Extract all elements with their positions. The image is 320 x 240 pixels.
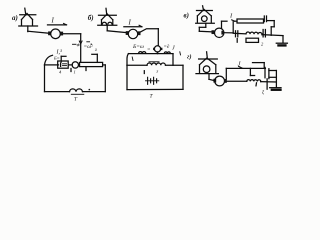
inductor arcs (g) (247, 80, 261, 82)
wire a3 corner down (80, 34, 82, 63)
arrowhead down on a3 (79, 41, 82, 44)
thermoelement TE1 top bar (20, 14, 36, 16)
meter m2 (B2) (154, 46, 160, 52)
svg-text:в): в) (184, 12, 189, 20)
thermoelement TE1 base bar (19, 25, 38, 27)
cap plates (g) (264, 67, 266, 77)
wire b3 corner down (157, 29, 159, 46)
thermoelement TE1 left side (21, 20, 23, 26)
thermoelement TE3 base bar (196, 22, 215, 24)
TE2 omega bumps (102, 22, 106, 25)
tick 1 (A2) (70, 69, 72, 72)
outer loop B2 bottom (127, 88, 183, 90)
galvanometer G3 left nub (212, 30, 215, 34)
top rail (g) (226, 67, 265, 69)
wire b2 (140, 29, 158, 32)
svg-text:ξ: ξ (262, 90, 265, 96)
thermoelement TE2 left side (101, 20, 103, 25)
thermoelement TE4 stick (206, 52, 209, 59)
top rail (v) (222, 20, 228, 22)
tick under box (A2) (85, 68, 87, 71)
rail drop (g) (225, 68, 227, 79)
rail drop left (v) (221, 21, 223, 28)
wire a1 (28, 31, 49, 33)
outer loop B2 left (126, 65, 128, 89)
thermoelement TE2 base bar (98, 24, 117, 26)
inner right vertical (A2) (92, 53, 98, 55)
inductor arcs (B2) (147, 63, 165, 65)
step down (v) (273, 21, 275, 27)
rail bumps left (B2) (139, 52, 143, 54)
current arrow I (a) (48, 24, 67, 26)
svg-text:I: I (51, 17, 55, 25)
TE4 inner circle (203, 66, 210, 73)
dot on wire (A2) (89, 89, 91, 91)
bracket wire A2 (60, 56, 62, 62)
rail A2 (45, 64, 59, 66)
thermoelement TE3 stick (202, 6, 205, 11)
lower plate stub (g) (266, 79, 268, 89)
rail right segment (v) (267, 20, 274, 22)
galvanometer G2 left nub (126, 31, 129, 35)
thermoelement TE2 stick (105, 8, 108, 15)
resistor box R1 (v) (237, 19, 264, 23)
outer loop A2 left (44, 65, 46, 92)
thermoelement TE3 left side (196, 16, 198, 22)
cap in rail (v) (263, 16, 265, 22)
tick t (g) (255, 83, 258, 86)
cap ticks 1 (v) (235, 31, 237, 37)
resistor box R (A2) (80, 62, 103, 66)
svg-text:T: T (150, 94, 154, 100)
thermoelement TE2 right side (112, 20, 114, 25)
galvanometer G1 left nub (48, 31, 51, 35)
thermoelement TE1 stem (27, 26, 29, 32)
meter m2 stem (157, 52, 159, 54)
galvanometer G3 (215, 28, 224, 37)
svg-text:г): г) (187, 53, 192, 60)
meter m (A2) (72, 62, 78, 68)
galvanometer G2 (128, 29, 137, 38)
current arrow I (b) (124, 26, 142, 28)
vertical junction (v) (232, 21, 234, 33)
svg-text:б): б) (88, 14, 94, 22)
thermo humps (A2 bottom) (70, 89, 83, 92)
resistor box R2 (v) (246, 38, 259, 42)
svg-text:I: I (128, 19, 132, 27)
svg-text:2: 2 (261, 42, 264, 47)
thermoelement TE3 top bar (197, 10, 213, 12)
outer loop A2 right (104, 65, 106, 92)
battery segment (B2) (146, 80, 159, 82)
thermoelement TE1 stick (25, 8, 26, 15)
wire v1 (199, 30, 212, 33)
galvanometer G4 right nub (224, 79, 227, 83)
inductor arcs (v) (246, 32, 262, 35)
svg-text:=∂: =∂ (164, 44, 170, 50)
outer loop A2 bottom (45, 91, 70, 93)
svg-text:J: J (172, 46, 175, 52)
galvanometer G4 left nub (213, 79, 216, 83)
bar above inductor (B2) (149, 61, 159, 63)
wire v2 (224, 32, 233, 34)
thermoelement TE2 stem (106, 25, 108, 31)
main wire (v) (233, 32, 246, 35)
thermoelement TE4 stem (208, 74, 210, 80)
right box (g) (269, 70, 277, 72)
thermoelement TE2 roof (102, 14, 113, 20)
rail right step (g) (249, 68, 251, 75)
thermoelement TE4 roof (200, 58, 216, 65)
rail bumps right (B2) (164, 52, 167, 54)
svg-text:Б=: Б= (53, 56, 60, 61)
wire g1 (209, 79, 214, 80)
ground (g) (270, 87, 281, 89)
arrowhead on rail (v) (232, 20, 235, 21)
rule under humps (A2) (71, 93, 84, 95)
thermoelement TE3 right side (210, 16, 212, 22)
svg-text:a): a) (12, 14, 18, 22)
rail B2 left curve (127, 54, 128, 66)
inner right vertical (B2) (172, 54, 174, 66)
galvanometer G4 (215, 76, 225, 86)
svg-text:4: 4 (59, 70, 62, 75)
galvanometer G1 right nub (60, 32, 63, 36)
svg-text:1: 1 (74, 70, 76, 75)
wire a2 (63, 33, 81, 35)
small down arrow (v) (236, 39, 238, 43)
tick near rail end (B2) (179, 52, 182, 55)
thermoelement TE2 top bar (99, 14, 117, 16)
svg-text:=ω²: =ω² (84, 44, 94, 50)
tick t (B2) (143, 71, 145, 74)
TE3 jog (199, 26, 206, 28)
thermoelement TE4 base bar (196, 73, 218, 75)
svg-text:≈: ≈ (148, 46, 151, 51)
svg-text:z: z (156, 69, 159, 74)
thermoelement TE4 top bar (199, 58, 218, 60)
tick left inner (B2) (131, 57, 134, 61)
svg-text:Б=ω: Б=ω (132, 44, 144, 50)
stub line (g) (253, 62, 265, 64)
TE3 inner circle (202, 16, 208, 22)
arrow on rail (g) (239, 66, 243, 68)
box B (A2) (58, 61, 68, 68)
mid wire B2 (127, 64, 147, 66)
ground stem (v) (282, 36, 284, 43)
outer loop B2 right (182, 65, 184, 89)
thermoelement TE1 roof (22, 13, 33, 19)
svg-text:I: I (229, 13, 233, 20)
thermoelement TE3 stem (205, 23, 207, 27)
thermoelement TE4 right side (215, 65, 217, 73)
galvanometer G2 right nub (138, 31, 141, 35)
svg-text:T: T (74, 97, 78, 103)
thermoelement TE3 roof (197, 9, 211, 16)
left curve A2 (45, 55, 53, 65)
thermoelement TE1 right side (32, 20, 34, 26)
rail B2 (128, 53, 173, 55)
main wire (g) (227, 80, 247, 82)
thermoelement TE4 left side (199, 65, 201, 73)
wire b1 (107, 31, 126, 33)
svg-text:λ: λ (94, 47, 97, 52)
ground (v) (276, 42, 287, 44)
galvanometer G3 right nub (221, 31, 224, 35)
galvanometer G1 (51, 29, 61, 39)
cap ticks 2 (v) (262, 30, 264, 37)
